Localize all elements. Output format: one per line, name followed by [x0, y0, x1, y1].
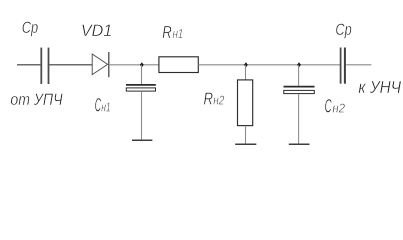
resistor R2 (Rн2): [238, 80, 253, 126]
wire R2 to ground: [245, 126, 247, 144]
wire R1 to right cap: [198, 64, 340, 66]
wire cap to diode: [50, 64, 93, 66]
ground (R2 branch): [235, 143, 256, 145]
svg-text:Ср: Ср: [335, 20, 351, 39]
wire output segment to УНЧ: [346, 64, 371, 66]
svg-text:н1: н1: [101, 100, 110, 115]
wire down to C1: [141, 65, 143, 84]
svg-text:С: С: [325, 95, 332, 117]
svg-text:к УНЧ: к УНЧ: [358, 77, 401, 97]
wire C1 to ground: [141, 91, 143, 140]
capacitor Cp (right coupling): [341, 48, 345, 84]
svg-text:н1: н1: [173, 27, 184, 41]
svg-text:Ср: Ср: [22, 18, 38, 37]
diode VD1: [92, 52, 109, 77]
svg-text:R: R: [204, 89, 214, 109]
capacitor Cp (left coupling): [41, 48, 48, 84]
label Сн1: [95, 95, 111, 117]
svg-text:от УПЧ: от УПЧ: [10, 90, 63, 109]
node junction at C1: [140, 62, 144, 67]
ground (C1 branch): [132, 139, 152, 141]
resistor R1 (Rн1): [159, 57, 198, 73]
wire diode to R1: [110, 64, 159, 66]
wire C2 to ground: [298, 94, 300, 144]
node junction at C2: [297, 62, 301, 67]
node junction at R2: [244, 62, 248, 67]
label Rн2: [204, 89, 225, 109]
label Сн2: [325, 95, 346, 117]
capacitor C2 (Сн2): [284, 87, 315, 94]
svg-text:R: R: [162, 22, 172, 42]
wire down to R2: [245, 65, 247, 80]
svg-text:н2: н2: [332, 100, 345, 115]
svg-text:н2: н2: [213, 94, 224, 108]
wire input segment from УПЧ: [17, 64, 40, 66]
label Rн1: [162, 22, 183, 42]
wire down to C2: [298, 65, 300, 86]
svg-text:VD1: VD1: [81, 21, 112, 40]
capacitor C1 (Сн1): [126, 85, 156, 91]
ground (C2 branch): [289, 143, 310, 145]
